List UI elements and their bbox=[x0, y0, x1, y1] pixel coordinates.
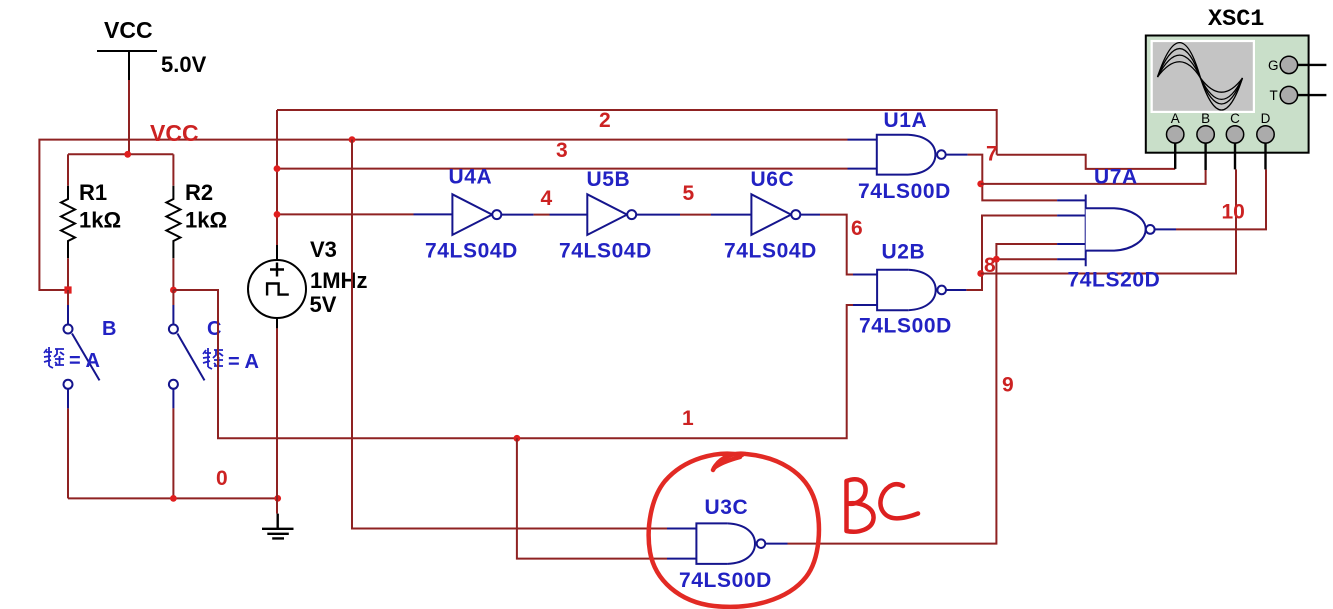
wire net 10 bbox=[1176, 169, 1266, 229]
switch B bbox=[64, 290, 117, 408]
svg-text:10: 10 bbox=[1222, 201, 1245, 224]
svg-text:C: C bbox=[1230, 111, 1240, 126]
wire net8 to scope C bbox=[981, 169, 1236, 273]
resistor R1 bbox=[61, 154, 121, 290]
gate U2B nand bbox=[853, 241, 966, 338]
svg-text:7: 7 bbox=[986, 143, 998, 166]
svg-text:B: B bbox=[1201, 111, 1210, 126]
scope terminal T bbox=[1270, 86, 1327, 103]
scope terminal D bbox=[1257, 111, 1274, 169]
hand-drawn circle pen start stroke bbox=[714, 457, 740, 468]
node net B vertical junction bbox=[349, 136, 356, 143]
svg-text:U3C: U3C bbox=[705, 496, 749, 519]
svg-text:74LS00D: 74LS00D bbox=[858, 180, 951, 203]
svg-text:74LS04D: 74LS04D bbox=[724, 240, 817, 263]
wire to U3C input 1 bbox=[352, 140, 667, 529]
svg-text:U1A: U1A bbox=[884, 109, 928, 132]
svg-text:1kΩ: 1kΩ bbox=[185, 208, 227, 233]
gate U1A nand bbox=[848, 109, 968, 203]
wire net 4 bbox=[534, 214, 550, 216]
svg-text:U6C: U6C bbox=[751, 168, 795, 191]
wire VCC rail (net VCC) bbox=[39, 140, 847, 290]
oscilloscope XSC1 bbox=[1146, 6, 1309, 153]
wire net 0 bbox=[68, 497, 278, 499]
svg-text:= A: = A bbox=[228, 351, 259, 373]
svg-text:74LS20D: 74LS20D bbox=[1068, 269, 1161, 292]
VCC power symbol bbox=[97, 51, 157, 80]
svg-text:U7A: U7A bbox=[1094, 166, 1138, 189]
wire switch B to net 0 bbox=[67, 408, 69, 498]
svg-text:74LS00D: 74LS00D bbox=[679, 569, 772, 592]
wire V3 bottom to net 0 bbox=[276, 328, 278, 513]
node VCC junction bbox=[124, 151, 131, 158]
svg-text:VCC: VCC bbox=[104, 17, 153, 43]
gate U3C nand bbox=[667, 496, 788, 592]
wire net9 branch row4 bbox=[996, 258, 1057, 260]
svg-text:A: A bbox=[1171, 111, 1180, 126]
wire VCC drop bbox=[128, 80, 130, 154]
svg-text:74LS04D: 74LS04D bbox=[559, 240, 652, 263]
node net9 junction bbox=[993, 256, 1000, 263]
svg-text:74LS00D: 74LS00D bbox=[859, 315, 952, 338]
hand-drawn circle around U3C bbox=[649, 454, 819, 607]
node C junction (R2 bottom) bbox=[170, 287, 177, 294]
svg-text:74LS04D: 74LS04D bbox=[425, 240, 518, 263]
handwritten B bbox=[847, 479, 874, 531]
wire U2B output net 8 bbox=[966, 216, 1057, 290]
switch C bbox=[169, 290, 222, 408]
scope terminal B bbox=[1197, 111, 1214, 170]
svg-text:3: 3 bbox=[556, 139, 568, 162]
voltage source V3 bbox=[248, 237, 367, 328]
svg-text:D: D bbox=[1261, 111, 1271, 126]
node V3 row junction bbox=[274, 211, 281, 218]
op U5B inverter bbox=[550, 168, 681, 263]
wire U1A output net 7 bbox=[968, 155, 1058, 201]
svg-text:1kΩ: 1kΩ bbox=[79, 208, 121, 233]
switch B key label 键 = A bbox=[44, 347, 64, 368]
op U4A inverter bbox=[414, 166, 534, 263]
svg-text:5V: 5V bbox=[310, 292, 337, 317]
svg-text:1MHz: 1MHz bbox=[310, 268, 367, 293]
resistor R2 bbox=[166, 154, 227, 290]
node net1 junction bbox=[514, 435, 521, 442]
svg-text:6: 6 bbox=[851, 217, 863, 240]
svg-text:G: G bbox=[1268, 58, 1279, 73]
gate U7A 74LS20D bbox=[1057, 166, 1176, 292]
wire net1 branch to U3C input 2 bbox=[517, 438, 667, 558]
svg-text:0: 0 bbox=[216, 467, 228, 490]
svg-text:VCC: VCC bbox=[150, 120, 199, 146]
wire U3C output net 9 bbox=[788, 244, 1058, 544]
svg-text:B: B bbox=[102, 318, 116, 340]
svg-text:U2B: U2B bbox=[882, 241, 926, 264]
svg-text:C: C bbox=[207, 318, 221, 340]
op U6C inverter bbox=[711, 168, 820, 263]
node net8 junction bbox=[977, 270, 984, 277]
node net3 junction bbox=[274, 165, 281, 172]
svg-text:R1: R1 bbox=[79, 180, 107, 205]
svg-text:2: 2 bbox=[599, 109, 611, 132]
svg-text:XSC1: XSC1 bbox=[1208, 6, 1264, 33]
node net0 junction C bbox=[170, 495, 177, 502]
svg-text:U4A: U4A bbox=[449, 166, 493, 189]
scope terminal C bbox=[1226, 111, 1243, 169]
svg-text:V3: V3 bbox=[310, 237, 337, 262]
ground bbox=[262, 514, 294, 539]
wire net 2 bbox=[277, 110, 997, 155]
node net7 junction bbox=[977, 181, 984, 188]
node B junction (R1 bottom) bbox=[64, 286, 71, 293]
handwritten C bbox=[880, 484, 918, 518]
svg-text:R2: R2 bbox=[185, 180, 213, 205]
scope waveform bbox=[1158, 43, 1243, 110]
wire net 5 bbox=[680, 214, 711, 216]
wire net 3 bbox=[277, 168, 848, 170]
svg-text:5: 5 bbox=[683, 182, 695, 205]
wire net 2 to scope A bbox=[997, 155, 1175, 169]
svg-text:9: 9 bbox=[1002, 374, 1014, 397]
wire net 6 (U6C out to U2B in1) bbox=[820, 215, 853, 275]
node net0 junction ground bbox=[274, 495, 281, 502]
wire switch C to net 0 bbox=[172, 408, 174, 498]
svg-text:1: 1 bbox=[682, 407, 694, 430]
wire R1-R2 top rail bbox=[68, 153, 173, 155]
wire V3 top column bbox=[276, 110, 278, 245]
wire V3 to U4A bbox=[277, 213, 414, 215]
switch C key label 键 = A bbox=[203, 348, 223, 369]
svg-text:5.0V: 5.0V bbox=[161, 52, 207, 77]
svg-text:U5B: U5B bbox=[587, 168, 631, 191]
svg-text:= A: = A bbox=[69, 350, 100, 372]
scope terminal A bbox=[1167, 111, 1184, 169]
wire net7 to scope B bbox=[981, 170, 1206, 184]
scope terminal G bbox=[1268, 56, 1326, 73]
wire C branch to net 1 bbox=[173, 290, 853, 438]
svg-text:T: T bbox=[1270, 88, 1278, 103]
svg-text:4: 4 bbox=[541, 187, 553, 210]
